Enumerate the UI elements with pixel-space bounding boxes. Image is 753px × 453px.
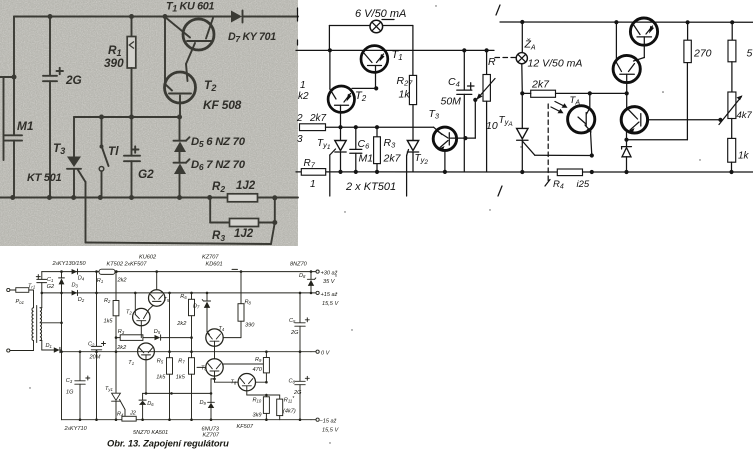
zener D5 bbox=[174, 140, 187, 142]
node: bottom rail dots (left half) bbox=[338, 170, 342, 174]
resistor R3 bbox=[120, 335, 143, 341]
transistor T8c bbox=[238, 374, 255, 391]
transistor T6c bbox=[206, 359, 223, 376]
svg-text:Tr1: Tr1 bbox=[28, 283, 35, 289]
plus sign C5 bbox=[305, 319, 309, 321]
svg-text:C3: C3 bbox=[66, 378, 73, 384]
zener diode below T3b bbox=[626, 140, 628, 147]
resistor R9 column bbox=[265, 352, 267, 358]
capacitor C6c bbox=[299, 352, 301, 381]
capacitor M1 bbox=[5, 134, 23, 136]
svg-text:C2: C2 bbox=[88, 342, 95, 348]
wire: T3b collector bbox=[648, 119, 721, 121]
dust specks bbox=[435, 5, 436, 6]
wire: T1 base vertical to T2 bbox=[164, 17, 166, 84]
wire: lamp top loop bbox=[329, 25, 370, 27]
scanned gray paper block (schematic A) bbox=[0, 0, 298, 246]
svg-text:C5: C5 bbox=[289, 318, 296, 324]
svg-text:270: 270 bbox=[693, 48, 712, 60]
resistor 1k bbox=[731, 119, 733, 139]
capacitor C3 column bbox=[79, 352, 81, 381]
input terminal upper bbox=[7, 288, 10, 291]
wire: secondary bottom lead bbox=[40, 340, 42, 342]
plus sign C2 bbox=[102, 343, 106, 345]
wire: top rail left of D7 bbox=[14, 16, 231, 18]
resistor R3 bbox=[376, 127, 378, 137]
terminal +30V bbox=[311, 271, 316, 273]
node: middle wire at T2 emitter bbox=[177, 115, 182, 120]
potentiometer R bbox=[486, 50, 488, 74]
wire: T8c collector bbox=[256, 381, 267, 383]
diode D5 bbox=[155, 335, 161, 340]
svg-text:2k2: 2k2 bbox=[176, 321, 187, 327]
dashed optical link bbox=[547, 104, 549, 183]
svg-text:G2: G2 bbox=[47, 284, 55, 290]
capacitor C5 bbox=[299, 293, 301, 322]
transistor T1c bbox=[138, 343, 155, 360]
wire: rail2 +15V bbox=[42, 292, 311, 294]
svg-text:Obr. 13. Zapojení regulátoru: Obr. 13. Zapojení regulátoru bbox=[107, 438, 229, 449]
resistor 2k7 bbox=[531, 90, 556, 97]
plus sign C3 bbox=[86, 377, 90, 379]
wire: bottom rail bbox=[0, 197, 298, 199]
svg-text:D8: D8 bbox=[299, 273, 306, 279]
transistor T4c bbox=[206, 329, 223, 346]
svg-text:R10: R10 bbox=[253, 398, 262, 404]
svg-text:12 V/50 mA: 12 V/50 mA bbox=[528, 58, 583, 70]
svg-text:(4k7): (4k7) bbox=[283, 409, 296, 415]
svg-text:D7: D7 bbox=[193, 304, 200, 310]
svg-text:M1: M1 bbox=[359, 153, 374, 165]
node: 2k7 junction bbox=[520, 91, 524, 95]
zener D7 column bbox=[206, 293, 208, 301]
transistor T2 bbox=[328, 86, 354, 112]
thyristor TyA bbox=[521, 93, 523, 128]
node: T1 emitter junction bbox=[374, 86, 378, 90]
input terminal lower bbox=[7, 349, 10, 352]
node: C3 ends bbox=[79, 350, 82, 353]
svg-text:1k: 1k bbox=[738, 151, 750, 162]
diode D6 bbox=[142, 393, 144, 400]
wire: gate row y393 bbox=[143, 392, 211, 394]
svg-text:2G: 2G bbox=[290, 330, 299, 336]
svg-text:15,5 V: 15,5 V bbox=[322, 301, 339, 307]
transistor T3 bbox=[433, 127, 456, 150]
wire: T6c base stub bbox=[197, 366, 206, 368]
svg-text:1: 1 bbox=[310, 179, 316, 190]
svg-text:Tl: Tl bbox=[108, 144, 119, 158]
svg-text:R3: R3 bbox=[118, 329, 125, 335]
svg-text:Ty1: Ty1 bbox=[105, 386, 113, 392]
resistor R3 bbox=[230, 219, 259, 227]
wire: T2c base from rail2 bbox=[134, 292, 137, 295]
wire: base wire y127 bbox=[326, 126, 434, 128]
fold mark top bbox=[496, 5, 500, 15]
wire: bottom rail B bbox=[296, 171, 753, 173]
wire: T5c collector to rail1 bbox=[156, 272, 158, 290]
wire: 2G capacitor branch lower bbox=[49, 81, 51, 197]
node: tap column at 0V bbox=[60, 350, 63, 353]
wire: TyA gate bbox=[535, 154, 592, 156]
plus sign C6c bbox=[305, 377, 309, 379]
svg-text:56: 56 bbox=[747, 48, 753, 60]
svg-text:4k7: 4k7 bbox=[737, 110, 753, 121]
capacitor C6 bbox=[355, 127, 357, 149]
transistor T5c bbox=[149, 290, 165, 306]
wire: main rail y50 bbox=[296, 49, 494, 51]
node: stub junction bbox=[12, 75, 17, 80]
wire: R1 branch top bbox=[131, 17, 133, 37]
wire: lamp to 2k7 junction bbox=[521, 64, 524, 94]
node: rail dots bbox=[520, 20, 524, 24]
switch Tl blade bbox=[102, 146, 109, 166]
resistor R11 bbox=[279, 395, 281, 399]
svg-text:KF 508: KF 508 bbox=[203, 98, 242, 112]
thyristor T3 bbox=[67, 157, 81, 168]
svg-text:3k9: 3k9 bbox=[253, 413, 262, 419]
wire: R3 branch bbox=[209, 198, 211, 223]
svg-text:390: 390 bbox=[245, 323, 255, 329]
svg-text:T6: T6 bbox=[201, 366, 207, 372]
phototransistor TA bbox=[568, 106, 595, 133]
wire: stub to left edge bbox=[0, 76, 14, 78]
svg-text:R5: R5 bbox=[157, 359, 164, 365]
svg-text:D5: D5 bbox=[154, 329, 161, 335]
svg-text:35 V: 35 V bbox=[323, 279, 336, 285]
plus sign of G2 bbox=[132, 149, 139, 151]
wire: 2k7 to TA/T2 bbox=[522, 92, 530, 94]
svg-text:5NZ70 KA501: 5NZ70 KA501 bbox=[133, 430, 168, 436]
wire: T1 emitter to gate row bbox=[145, 360, 147, 394]
wire: T3 collector to C4 bbox=[451, 137, 476, 139]
transistor T1 bbox=[361, 46, 388, 73]
svg-text:k2: k2 bbox=[298, 91, 309, 102]
svg-text:1J2: 1J2 bbox=[236, 180, 256, 192]
svg-text:20M: 20M bbox=[89, 355, 101, 361]
wire: rail -15V bbox=[62, 419, 312, 421]
transistor T2b bbox=[613, 55, 640, 82]
svg-text:R7: R7 bbox=[304, 158, 316, 170]
capacitor 2G bbox=[43, 75, 57, 77]
svg-text:1G: 1G bbox=[66, 390, 74, 396]
svg-text:0 V: 0 V bbox=[321, 351, 331, 357]
resistor 270 bbox=[687, 22, 689, 40]
svg-text:D4: D4 bbox=[78, 275, 85, 281]
svg-text:2G: 2G bbox=[293, 390, 302, 396]
transistor T1 bbox=[183, 19, 214, 50]
fuse Po1 bbox=[16, 288, 29, 293]
wire: G2 upper / lower bbox=[131, 117, 133, 156]
plus sign C1 bbox=[36, 276, 40, 278]
node: D5 wire end bbox=[190, 336, 193, 339]
node: T2 emitter tap bbox=[625, 91, 629, 95]
wire: top rail bbox=[500, 21, 753, 23]
resistor R5 column bbox=[169, 293, 171, 358]
svg-text:2k7: 2k7 bbox=[531, 79, 550, 91]
pot wiper arrow 4k7 bbox=[719, 97, 742, 125]
wire: rail 0V bbox=[62, 351, 312, 353]
switch Tl contact bbox=[99, 167, 104, 172]
svg-text:KU602: KU602 bbox=[139, 254, 157, 260]
wire: R2 column to Ty1 bbox=[115, 338, 117, 394]
svg-text:R7: R7 bbox=[178, 359, 185, 365]
wire: middle horizontal wire bbox=[74, 116, 180, 118]
capacitor C4 bbox=[463, 50, 465, 90]
svg-text:KF507: KF507 bbox=[237, 424, 254, 430]
svg-text:J2: J2 bbox=[129, 411, 137, 417]
svg-text:D7 KY 701: D7 KY 701 bbox=[228, 31, 276, 44]
wire: top rail right of D7 bbox=[243, 16, 299, 18]
diode D1 bbox=[54, 347, 60, 352]
node: T3 collector junction bbox=[463, 136, 467, 140]
thyristor Ty1 bbox=[340, 127, 342, 140]
svg-text:10: 10 bbox=[486, 120, 498, 132]
diode D4 on rail1 bbox=[72, 269, 78, 274]
wire: T4c collector bbox=[222, 337, 224, 339]
svg-text:R6: R6 bbox=[180, 294, 187, 300]
svg-text:15,5 V: 15,5 V bbox=[322, 427, 339, 433]
switch Tl vertical top bbox=[101, 117, 103, 146]
wire: T6c collector to R9 bbox=[223, 363, 263, 365]
node: wire dots y127 bbox=[338, 125, 342, 129]
svg-text:2: 2 bbox=[296, 113, 303, 124]
plus sign of 2G bbox=[57, 70, 64, 72]
svg-text:2k7: 2k7 bbox=[383, 153, 402, 165]
node: R1 ends bbox=[95, 270, 98, 273]
diode D7 bbox=[231, 11, 242, 23]
crop mark B left mid bbox=[297, 40, 299, 45]
node: collector wire end bbox=[718, 118, 722, 122]
wire: R1 bottom to middle wire bbox=[131, 68, 133, 117]
svg-text:C1: C1 bbox=[47, 277, 53, 283]
node: rail at T2 branch bbox=[328, 48, 332, 52]
node: T3b emitter junction bbox=[624, 138, 628, 142]
light arrows into TA bbox=[551, 107, 562, 113]
wire: T3 gate feedback bbox=[85, 182, 87, 243]
wire: 270 bottom to T3b emitter bbox=[627, 139, 688, 141]
svg-text:+30 až: +30 až bbox=[321, 270, 338, 276]
node: bottom rail dots (right half) bbox=[520, 170, 524, 174]
resistor R6 column bbox=[191, 293, 193, 299]
svg-text:D9: D9 bbox=[200, 400, 207, 406]
node: top rail T1 base tap bbox=[163, 14, 168, 19]
crop mark B left top bbox=[297, 8, 299, 21]
wire: R3/D5 row bbox=[116, 337, 155, 339]
resistor 56 (clipped) bbox=[731, 22, 733, 40]
node: wiper junction bbox=[473, 98, 477, 102]
svg-text:2xKY710: 2xKY710 bbox=[64, 426, 88, 432]
wire: center tap bbox=[40, 322, 62, 324]
svg-text:470: 470 bbox=[253, 367, 263, 373]
thyristor Ty1 bbox=[112, 393, 121, 400]
pot wiper arrow bbox=[478, 79, 496, 99]
wire: T2 emitter column through zeners bbox=[179, 117, 181, 141]
svg-text:KT 501: KT 501 bbox=[27, 172, 61, 184]
capacitor C1 on secondary top lead bbox=[41, 272, 43, 279]
resistor 2k7 bbox=[300, 124, 326, 131]
svg-text:i25: i25 bbox=[577, 179, 590, 190]
svg-text:1k5: 1k5 bbox=[104, 319, 114, 325]
svg-text:50M: 50M bbox=[441, 96, 462, 108]
wire: wiper to T3 collector bbox=[474, 100, 476, 138]
resistor R4 on bottom rail bbox=[557, 169, 582, 176]
wire: lamp branch bbox=[521, 22, 523, 53]
resistor R10 bbox=[265, 395, 267, 397]
node: bottom rail dots bbox=[10, 195, 15, 200]
svg-text:D1: D1 bbox=[46, 343, 52, 349]
node: C1 at rail2 bbox=[41, 292, 44, 295]
transistor T2 bbox=[165, 72, 196, 103]
node: R3 right bbox=[272, 220, 277, 225]
resistor R1 bbox=[127, 37, 136, 69]
svg-text:R8: R8 bbox=[245, 300, 252, 306]
resistor R2 column bbox=[115, 272, 117, 301]
svg-text:R9: R9 bbox=[255, 357, 262, 363]
node: TA collector tap bbox=[588, 91, 592, 95]
wire: 2G capacitor branch upper bbox=[49, 17, 51, 76]
svg-text:R4: R4 bbox=[117, 412, 124, 418]
svg-text:M1: M1 bbox=[17, 119, 33, 133]
svg-text:6 V/50 mA: 6 V/50 mA bbox=[355, 8, 406, 20]
node: R3 junction bbox=[115, 336, 118, 339]
svg-text:1k5: 1k5 bbox=[156, 375, 166, 381]
minus mark bbox=[232, 268, 238, 270]
node: middle wire at Tl bbox=[99, 115, 104, 120]
svg-text:2k2: 2k2 bbox=[116, 345, 127, 351]
svg-text:T4: T4 bbox=[219, 326, 225, 332]
svg-text:3: 3 bbox=[297, 134, 303, 145]
svg-text:8NZ70: 8NZ70 bbox=[290, 261, 308, 267]
resistor R27 bbox=[409, 75, 416, 104]
diode D2 on rail2 bbox=[72, 290, 78, 295]
underline under 50 bbox=[382, 19, 394, 21]
svg-text:1J2: 1J2 bbox=[234, 228, 254, 240]
lamp ZA 12V bbox=[516, 53, 527, 64]
node: T6c emitter junction bbox=[213, 378, 216, 381]
wire: left vertical rail bbox=[13, 17, 15, 136]
resistor R2 bbox=[228, 194, 258, 202]
potentiometer 4k7 bbox=[731, 62, 733, 92]
node: middle wire at R1/G2 bbox=[129, 115, 134, 120]
terminal 0V bbox=[311, 351, 316, 353]
svg-text:Po1: Po1 bbox=[16, 299, 24, 305]
transistor T3b bbox=[621, 107, 647, 133]
svg-text:G2: G2 bbox=[138, 167, 154, 181]
capacitor C2 column bbox=[96, 272, 98, 346]
svg-text:2k7: 2k7 bbox=[309, 113, 327, 124]
svg-text:C6: C6 bbox=[289, 379, 296, 385]
node: gate/emitter junction bbox=[590, 153, 594, 157]
resistor R4 on rail bbox=[122, 416, 136, 421]
diode D3 (vertical) bbox=[61, 272, 63, 278]
svg-text:2k2: 2k2 bbox=[117, 278, 128, 284]
terminal +15V bbox=[311, 292, 316, 294]
transistor T2c bbox=[133, 308, 150, 325]
resistor R7 bbox=[301, 169, 325, 176]
svg-text:T1: T1 bbox=[128, 360, 134, 366]
svg-text:R1: R1 bbox=[97, 278, 103, 284]
dashed wire to lamp bbox=[495, 57, 516, 59]
svg-text:KT502 2xKF507: KT502 2xKF507 bbox=[107, 262, 148, 268]
svg-text:1: 1 bbox=[300, 80, 306, 91]
svg-text:−15 až: −15 až bbox=[320, 418, 337, 424]
svg-text:+15 až: +15 až bbox=[321, 292, 338, 298]
node: Ty1 at -15 rail bbox=[115, 418, 118, 421]
resistor R8 column bbox=[240, 272, 242, 304]
resistor R7 bbox=[189, 358, 195, 375]
zener D9 branch bbox=[211, 378, 215, 380]
wire: T8c base bbox=[214, 379, 216, 382]
svg-text:390: 390 bbox=[104, 56, 124, 70]
node: 2G top bbox=[48, 14, 53, 19]
svg-text:KD601: KD601 bbox=[206, 262, 223, 268]
resistor R1 on rail1 bbox=[99, 269, 115, 274]
svg-text:D6: D6 bbox=[147, 401, 154, 407]
svg-text:1k5: 1k5 bbox=[176, 375, 186, 381]
terminal -15V bbox=[311, 419, 316, 421]
capacitor G2 bbox=[124, 155, 140, 157]
transistor T1b bbox=[630, 18, 657, 45]
wire: rail1 +30V bbox=[42, 271, 311, 273]
svg-text:T5: T5 bbox=[164, 297, 170, 303]
svg-text:T2: T2 bbox=[126, 310, 132, 316]
svg-text:KZ707: KZ707 bbox=[202, 254, 219, 260]
wire: T8c emitter row bbox=[247, 394, 280, 396]
lamp 6V bbox=[370, 20, 383, 33]
node: rail at C4 bbox=[462, 48, 466, 52]
node: rail 0V dots bbox=[95, 350, 98, 353]
svg-text:2G: 2G bbox=[65, 73, 82, 87]
thyristor Ty2 bbox=[412, 105, 414, 141]
svg-text:D2: D2 bbox=[78, 297, 85, 303]
node: center tap junction bbox=[60, 322, 63, 325]
svg-text:D3: D3 bbox=[72, 283, 79, 289]
svg-text:2 x KT501: 2 x KT501 bbox=[345, 181, 396, 193]
thyristor T3 anode wire bbox=[73, 117, 75, 157]
svg-text:1k: 1k bbox=[399, 89, 411, 101]
plus sign of C4 bbox=[468, 85, 475, 87]
fold mark bottom bbox=[498, 186, 502, 196]
node: D3 ends bbox=[60, 270, 63, 273]
wire: T2 to T1 emitter bbox=[352, 87, 376, 89]
switch Tl vertical bottom bbox=[101, 171, 103, 197]
zener D8 bbox=[310, 272, 312, 280]
node: R1 top bbox=[129, 14, 134, 19]
svg-text:R2: R2 bbox=[104, 298, 111, 304]
zener D6 bbox=[174, 162, 187, 164]
wire: far left vertical bbox=[3, 77, 5, 160]
node: rail at pot bbox=[485, 48, 489, 52]
